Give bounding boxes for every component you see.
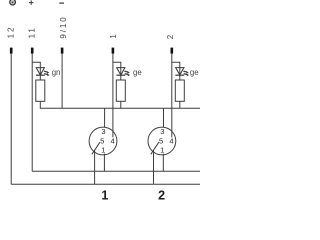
wire 1 vertical xyxy=(112,54,114,138)
svg-text:2: 2 xyxy=(166,33,175,39)
bus 0V horizontal xyxy=(40,101,200,108)
svg-text:5: 5 xyxy=(100,137,104,146)
resistor R ge2 xyxy=(175,80,184,101)
LED ge1 xyxy=(116,68,130,77)
svg-text:2: 2 xyxy=(158,189,165,201)
svg-text:9/10: 9/10 xyxy=(59,15,68,38)
wire branch to LED gn xyxy=(32,62,40,68)
wire 11 vertical xyxy=(31,54,33,172)
svg-text:1: 1 xyxy=(109,32,118,38)
wire LED ge2 to resistor xyxy=(179,75,181,80)
wire branch to LED ge1 xyxy=(113,62,121,68)
terminal 12 xyxy=(10,48,13,54)
svg-text:4: 4 xyxy=(111,137,115,146)
svg-text:1: 1 xyxy=(160,146,164,155)
socket X1 circle xyxy=(89,127,117,155)
svg-text:ge: ge xyxy=(133,68,142,77)
bus +24V (11) horizontal xyxy=(32,170,200,172)
svg-text:4: 4 xyxy=(169,137,173,146)
earth symbol (circled) top-left legend xyxy=(10,0,16,5)
svg-text:gn: gn xyxy=(52,68,61,77)
wire X1 pin1 to +24V bus xyxy=(103,154,105,172)
svg-text:12: 12 xyxy=(6,26,15,39)
LED gn xyxy=(36,68,50,77)
wire 12 vertical xyxy=(10,54,12,185)
wire bus0V to X2 pin3 xyxy=(163,108,165,127)
resistor R ge1 xyxy=(116,80,125,101)
svg-text:1: 1 xyxy=(101,146,105,155)
wire branch to LED ge2 xyxy=(172,62,180,68)
svg-text:3: 3 xyxy=(101,127,105,136)
wire X2 pin5 diagonal xyxy=(151,142,159,154)
wire resistor ge2 to bus xyxy=(179,101,181,108)
resistor R gn xyxy=(36,80,45,101)
wire X2 pin1 to +24V bus xyxy=(162,154,164,172)
terminal 11 xyxy=(31,48,34,54)
plus symbol legend xyxy=(29,0,33,4)
svg-text:ge: ge xyxy=(190,68,199,77)
wire bus0V to X1 pin3 xyxy=(104,108,106,127)
wire LED gn to resistor xyxy=(39,75,41,80)
wire LED ge1 to resistor xyxy=(120,75,122,80)
svg-text:5: 5 xyxy=(159,137,163,146)
LED ge2 xyxy=(175,68,189,77)
svg-text:3: 3 xyxy=(160,127,164,136)
wire X1 pin5 diagonal xyxy=(92,142,100,154)
wire 2 vertical xyxy=(171,54,173,138)
wire resistor ge1 to bus xyxy=(120,101,122,108)
svg-text:11: 11 xyxy=(28,26,37,38)
terminal 1 xyxy=(112,48,115,54)
socket X2 circle xyxy=(148,127,176,155)
bus earth (12) horizontal xyxy=(11,183,200,185)
wire 9/10 vertical xyxy=(61,54,63,109)
terminal 2 xyxy=(171,48,174,54)
minus symbol legend xyxy=(59,2,64,4)
svg-text:1: 1 xyxy=(101,189,108,201)
terminal 9/10 xyxy=(61,48,64,54)
